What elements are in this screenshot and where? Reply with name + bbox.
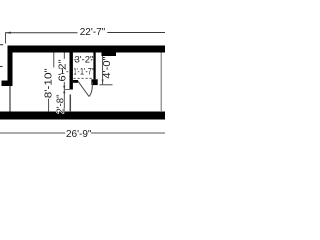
door header dashed line bbox=[74, 77, 93, 79]
svg-text:3'-2": 3'-2" bbox=[74, 54, 93, 65]
left edge tick lower bbox=[0, 66, 3, 68]
dim junction tick bbox=[65, 89, 70, 91]
svg-text:1'-: 1'- bbox=[74, 67, 80, 77]
top wall thick block bbox=[102, 53, 117, 57]
svg-text:8'-10": 8'-10" bbox=[44, 68, 55, 99]
dimension 22'-7" left arrow bbox=[5, 32, 11, 34]
dim junction up arrow bbox=[63, 90, 65, 94]
svg-text:1'-7": 1'-7" bbox=[80, 67, 94, 78]
left thin wall line below bbox=[9, 86, 11, 112]
dim 3'-2" left arrow bbox=[73, 59, 75, 61]
left wall foot bbox=[2, 81, 13, 87]
dimension 26'-9" line left segment bbox=[0, 132, 65, 134]
door right jamb bbox=[91, 79, 97, 85]
dim 4'-0" bottom arrow bbox=[102, 80, 104, 85]
svg-text:26'-9": 26'-9" bbox=[66, 129, 92, 140]
dim 4'-0" line bbox=[102, 56, 104, 84]
dim 8'-10" lower line bbox=[48, 99, 50, 112]
top wall bbox=[8, 46, 165, 53]
dim 4'-0" extension line bbox=[100, 84, 113, 86]
door leaf bbox=[78, 81, 89, 97]
left edge tick upper bbox=[0, 44, 3, 46]
svg-text:2'-8": 2'-8" bbox=[55, 94, 66, 113]
dimension 22'-7" extension line bbox=[5, 33, 7, 44]
dim 6'-2"/2'-8" line lower segment bbox=[63, 82, 65, 112]
dimension 22'-7" line right segment bbox=[107, 32, 165, 34]
dim 3'-2" right arrow bbox=[91, 59, 93, 61]
svg-text:1'-: 1'- bbox=[60, 67, 69, 76]
door hinge nub bbox=[73, 80, 78, 83]
door swing arc bbox=[89, 82, 92, 97]
dim junction down arrow bbox=[63, 86, 65, 90]
dim 6'-2"/2'-8" line upper segment bbox=[63, 53, 65, 59]
svg-text:22'-7": 22'-7" bbox=[80, 27, 106, 38]
dimension 22'-7" line left segment bbox=[5, 32, 78, 34]
right thin wall line bbox=[160, 53, 162, 113]
svg-text:4'-0": 4'-0" bbox=[102, 56, 113, 78]
interior wall right of door bbox=[93, 53, 95, 80]
dimension 26'-9" line right segment bbox=[91, 132, 165, 134]
thin wall line below door bbox=[69, 95, 71, 113]
bottom wall bbox=[0, 112, 165, 120]
dim 8'-10" upper line bbox=[53, 53, 55, 68]
interior wall left of door bbox=[70, 53, 73, 90]
left wall bbox=[8, 46, 13, 87]
